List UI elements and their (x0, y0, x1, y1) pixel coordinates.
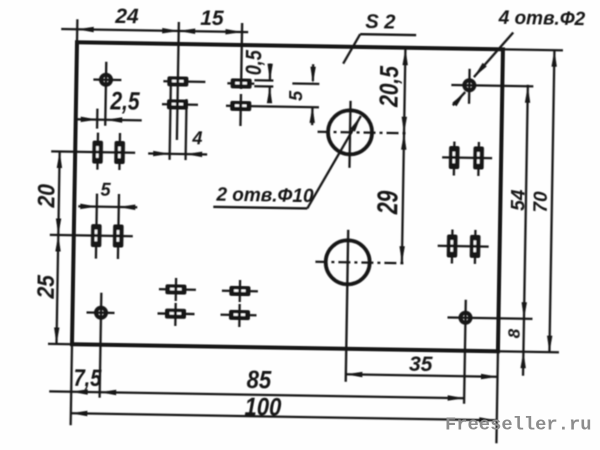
svg-text:15: 15 (200, 7, 224, 30)
svg-text:70: 70 (531, 191, 552, 213)
svg-text:54: 54 (508, 189, 529, 211)
svg-text:35: 35 (409, 353, 433, 376)
svg-text:25: 25 (32, 275, 59, 300)
svg-text:24: 24 (114, 5, 139, 28)
svg-text:2,5: 2,5 (109, 87, 141, 116)
svg-text:5: 5 (100, 180, 111, 200)
svg-text:20,5: 20,5 (375, 65, 404, 108)
svg-text:2 отв.Ф10: 2 отв.Ф10 (215, 185, 314, 208)
svg-text:5: 5 (286, 90, 306, 101)
svg-text:20: 20 (33, 184, 60, 209)
svg-text:4 отв.Ф2: 4 отв.Ф2 (498, 8, 586, 30)
svg-text:100: 100 (244, 393, 281, 421)
svg-text:85: 85 (246, 366, 272, 394)
svg-text:Freeseller.ru: Freeseller.ru (445, 414, 592, 436)
svg-text:4: 4 (191, 128, 202, 148)
svg-text:S 2: S 2 (365, 11, 395, 33)
svg-text:8: 8 (505, 328, 524, 338)
svg-text:0,5: 0,5 (242, 49, 267, 75)
svg-text:7,5: 7,5 (73, 364, 102, 391)
svg-text:29: 29 (372, 190, 404, 215)
